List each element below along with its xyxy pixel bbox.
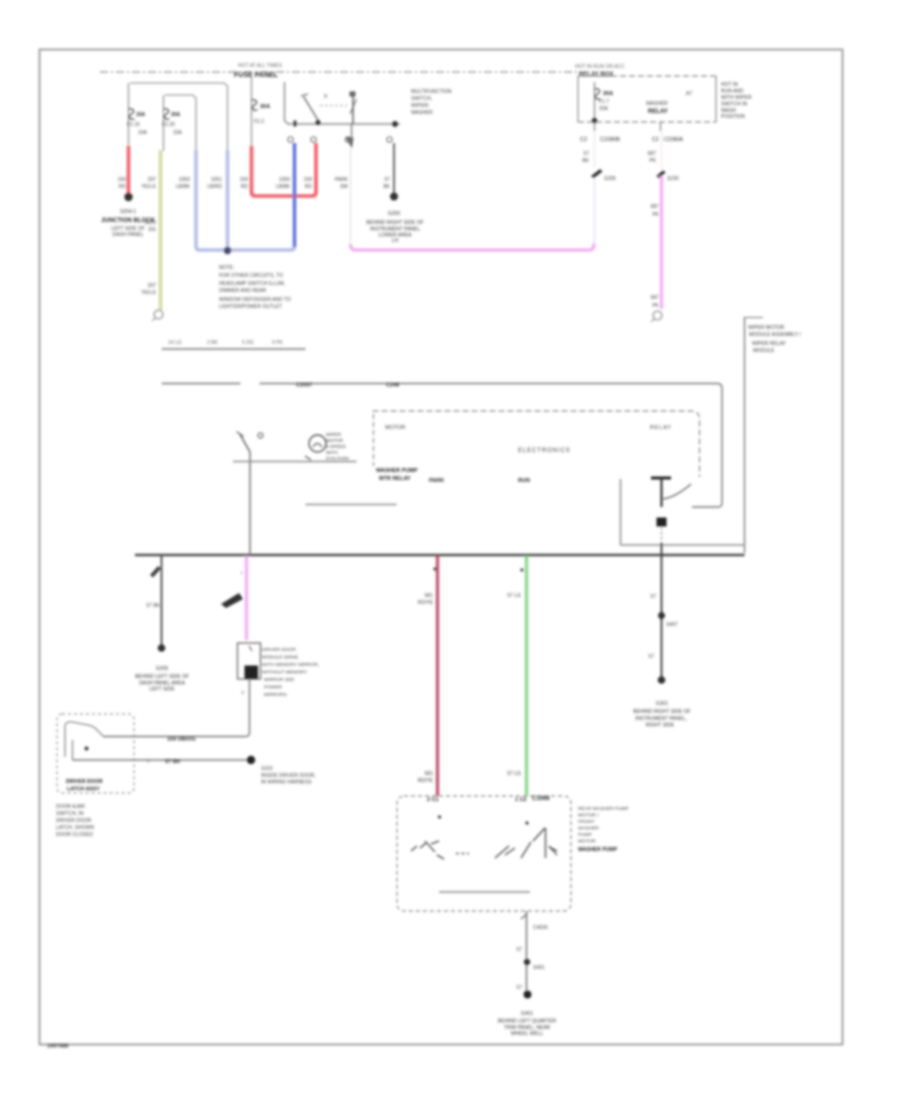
- svg-text:RELAY: RELAY: [650, 425, 672, 431]
- svg-text:RELAY BOX: RELAY BOX: [579, 72, 613, 78]
- svg-text:WASHER: WASHER: [411, 110, 433, 116]
- svg-text:A7: A7: [686, 91, 692, 97]
- svg-text:LH: LH: [392, 238, 399, 244]
- svg-text:MIRROR SEE: MIRROR SEE: [264, 677, 294, 683]
- svg-text:WIPER MOTOR: WIPER MOTOR: [748, 325, 785, 331]
- svg-text:LB/RD: LB/RD: [207, 184, 222, 190]
- svg-text:S204-1: S204-1: [120, 209, 136, 215]
- svg-text:HOT IN RUN OR ACC: HOT IN RUN OR ACC: [575, 64, 625, 70]
- svg-text:PK: PK: [652, 212, 659, 218]
- svg-text:DRIVER DOOR: DRIVER DOOR: [66, 779, 103, 785]
- svg-text:RIGHT SIDE: RIGHT SIDE: [646, 723, 675, 729]
- svg-text:F2.15: F2.15: [127, 122, 140, 128]
- svg-text:C248: C248: [386, 383, 399, 389]
- svg-text:G200: G200: [388, 211, 400, 217]
- svg-text:RELAY: RELAY: [648, 109, 668, 115]
- svg-text:MULTIFUNCTION: MULTIFUNCTION: [411, 89, 452, 95]
- svg-text:INSTRUMENT PANEL,: INSTRUMENT PANEL,: [635, 716, 687, 722]
- svg-text:57: 57: [516, 985, 522, 991]
- svg-text:PUMP: PUMP: [578, 832, 592, 838]
- svg-text:PARK: PARK: [429, 478, 444, 484]
- svg-text:BK: BK: [582, 158, 589, 164]
- svg-text:MOTOR /: MOTOR /: [578, 813, 599, 819]
- svg-text:REAR WASHER PUMP: REAR WASHER PUMP: [578, 806, 629, 812]
- svg-text:2 C1: 2 C1: [427, 797, 439, 803]
- svg-text:RUN AND: RUN AND: [721, 89, 744, 95]
- svg-text:C2280A: C2280A: [663, 137, 683, 143]
- svg-text:2 BK: 2 BK: [207, 340, 219, 346]
- svg-text:57 LG: 57 LG: [507, 771, 521, 777]
- svg-text:SWITCH, IN: SWITCH, IN: [56, 811, 84, 817]
- svg-text:WASHER: WASHER: [578, 826, 599, 832]
- svg-text:2-SPEED: 2-SPEED: [326, 444, 346, 449]
- svg-text:159: 159: [304, 177, 313, 183]
- svg-text:57: 57: [650, 594, 656, 600]
- svg-text:681: 681: [425, 771, 434, 777]
- svg-text:14 LG: 14 LG: [168, 340, 182, 346]
- svg-text:S230: S230: [667, 176, 679, 182]
- svg-text:HOT AT ALL TIMES: HOT AT ALL TIMES: [238, 63, 283, 69]
- svg-text:SWITCH IN: SWITCH IN: [721, 102, 747, 108]
- svg-text:G401: G401: [521, 1011, 533, 1017]
- svg-text:30A: 30A: [260, 104, 270, 110]
- svg-text:DOOR AJAR: DOOR AJAR: [56, 804, 85, 810]
- svg-text:FRONT: FRONT: [578, 819, 595, 825]
- svg-text:MOTOR: MOTOR: [326, 438, 344, 443]
- svg-text:WHEEL WELL: WHEEL WELL: [511, 1031, 544, 1037]
- svg-text:DIMMER AND REAR: DIMMER AND REAR: [219, 288, 267, 294]
- svg-text:57: 57: [516, 947, 522, 953]
- svg-text:YE/LG: YE/LG: [141, 184, 156, 190]
- svg-text:F2.2: F2.2: [254, 119, 264, 125]
- svg-text:687: 687: [651, 204, 660, 210]
- svg-text:BK: BK: [383, 184, 390, 190]
- svg-text:297: 297: [148, 283, 157, 289]
- svg-text:1050: 1050: [279, 177, 290, 183]
- svg-text:B: B: [324, 94, 328, 100]
- svg-text:WIPER/: WIPER/: [411, 103, 429, 109]
- svg-text:20A: 20A: [171, 112, 181, 118]
- svg-text:MODULE: MODULE: [753, 348, 775, 354]
- svg-text:S310: S310: [261, 766, 273, 772]
- svg-text:FOR OTHER CIRCUITS, TO: FOR OTHER CIRCUITS, TO: [219, 273, 283, 279]
- svg-text:159: 159: [240, 177, 249, 183]
- svg-text:WITH MEMORY MIRROR,: WITH MEMORY MIRROR,: [262, 662, 319, 668]
- svg-text:WITHOUT MEMORY: WITHOUT MEMORY: [262, 670, 308, 676]
- svg-text:BEHIND LEFT QUARTER: BEHIND LEFT QUARTER: [498, 1019, 557, 1025]
- svg-text:57: 57: [384, 177, 390, 183]
- svg-text:INSIDE DRIVER DOOR,: INSIDE DRIVER DOOR,: [261, 773, 316, 779]
- svg-text:SW: SW: [340, 184, 348, 190]
- svg-text:RD: RD: [119, 184, 127, 190]
- svg-text:9 PK: 9 PK: [272, 340, 284, 346]
- svg-text:LB/BK: LB/BK: [176, 184, 191, 190]
- svg-text:LATCH, SHOWN: LATCH, SHOWN: [56, 825, 94, 831]
- svg-text:RD: RD: [305, 184, 313, 190]
- svg-text:BEHIND RIGHT SIDE OF: BEHIND RIGHT SIDE OF: [366, 220, 423, 226]
- svg-text:687: 687: [651, 295, 660, 301]
- svg-text:F1.7: F1.7: [599, 99, 609, 105]
- svg-text:LIGHTER/POWER OUTLET: LIGHTER/POWER OUTLET: [219, 304, 282, 310]
- svg-text:POSITION: POSITION: [721, 114, 745, 120]
- svg-text:57: 57: [583, 151, 589, 157]
- svg-text:C1066: C1066: [532, 796, 550, 802]
- svg-text:RD/YE: RD/YE: [418, 600, 434, 606]
- svg-text:LEFT SIDE: LEFT SIDE: [149, 687, 175, 693]
- svg-text:NOTE:: NOTE:: [219, 265, 234, 271]
- svg-text:57 BK: 57 BK: [146, 603, 160, 609]
- svg-text:PK: PK: [649, 158, 656, 164]
- svg-text:MIRRORS: MIRRORS: [264, 692, 287, 698]
- svg-text:1997688: 1997688: [47, 1044, 68, 1050]
- svg-text:WASHER: WASHER: [646, 101, 668, 107]
- svg-text:681: 681: [425, 593, 434, 599]
- svg-text:MOTOR: MOTOR: [578, 839, 596, 845]
- svg-text:8: 8: [241, 690, 244, 695]
- svg-text:DASH PANEL: DASH PANEL: [112, 232, 144, 238]
- svg-text:YE/LG: YE/LG: [141, 290, 156, 296]
- svg-text:PK: PK: [652, 303, 659, 309]
- svg-text:F2.20: F2.20: [162, 122, 175, 128]
- svg-text:FUSE PANEL: FUSE PANEL: [234, 72, 279, 79]
- svg-text:RD/YE: RD/YE: [418, 778, 434, 784]
- svg-text:S206: S206: [604, 176, 616, 182]
- svg-text:159 DB/OG: 159 DB/OG: [167, 737, 196, 743]
- svg-text:ELECTRONICS: ELECTRONICS: [518, 448, 571, 454]
- svg-text:POWER: POWER: [264, 685, 283, 691]
- svg-text:WITH: WITH: [326, 450, 338, 455]
- svg-text:DRIVER DOOR: DRIVER DOOR: [56, 818, 92, 824]
- svg-text:57: 57: [648, 654, 654, 660]
- svg-text:WASHER PUMP: WASHER PUMP: [376, 468, 418, 474]
- svg-text:MOTOR: MOTOR: [385, 425, 405, 431]
- svg-text:IN WIRING HARNESS: IN WIRING HARNESS: [261, 780, 312, 786]
- svg-text:1051: 1051: [211, 177, 222, 183]
- svg-text:LATCH ASSY: LATCH ASSY: [67, 787, 100, 793]
- svg-text:DG: DG: [149, 227, 157, 233]
- svg-text:MODULE (DDM): MODULE (DDM): [262, 655, 298, 661]
- svg-text:5 DG: 5 DG: [242, 340, 254, 346]
- svg-text:DYN PARK: DYN PARK: [326, 456, 350, 461]
- svg-text:1: 1: [240, 570, 243, 575]
- svg-text:BEHIND RIGHT SIDE OF: BEHIND RIGHT SIDE OF: [633, 709, 690, 715]
- svg-text:C2: C2: [580, 137, 587, 143]
- svg-text:C2057: C2057: [296, 383, 312, 389]
- svg-text:30A: 30A: [603, 91, 613, 97]
- svg-text:15A: 15A: [136, 112, 146, 118]
- svg-text:G301: G301: [656, 701, 668, 707]
- svg-text:C2: C2: [652, 137, 659, 143]
- svg-text:297: 297: [148, 177, 157, 183]
- svg-text:57 BK: 57 BK: [165, 759, 181, 765]
- svg-text:RUN: RUN: [518, 478, 530, 484]
- svg-text:WIPER RELAY: WIPER RELAY: [752, 341, 786, 347]
- svg-text:1050: 1050: [179, 177, 190, 183]
- svg-text:G205: G205: [156, 666, 168, 672]
- svg-text:2: 2: [147, 759, 150, 764]
- svg-text:S220: S220: [144, 220, 156, 226]
- svg-text:DRIVER DOOR: DRIVER DOOR: [262, 647, 296, 653]
- svg-text:WIPER: WIPER: [326, 432, 342, 437]
- svg-text:S401: S401: [533, 965, 545, 971]
- svg-text:DOOR CLOSED: DOOR CLOSED: [56, 832, 93, 838]
- svg-text:S407: S407: [666, 622, 678, 628]
- svg-text:MTR RELAY: MTR RELAY: [379, 476, 411, 482]
- svg-text:PARK: PARK: [335, 177, 349, 183]
- svg-text:687: 687: [648, 151, 657, 157]
- svg-text:C2280B: C2280B: [600, 137, 620, 143]
- svg-text:1 C2: 1 C2: [515, 797, 527, 803]
- svg-text:MODULE ASSEMBLY /: MODULE ASSEMBLY /: [749, 332, 801, 338]
- svg-text:WITH WIPER: WITH WIPER: [721, 95, 752, 101]
- svg-text:159: 159: [118, 177, 127, 183]
- svg-text:15A: 15A: [173, 130, 183, 136]
- svg-text:10A: 10A: [138, 130, 148, 136]
- svg-text:WASHER PUMP: WASHER PUMP: [578, 847, 618, 853]
- svg-text:C4035: C4035: [533, 925, 548, 931]
- svg-text:WINDOW DEFOGGER AND TO: WINDOW DEFOGGER AND TO: [219, 297, 291, 303]
- svg-text:BEHIND LEFT SIDE OF: BEHIND LEFT SIDE OF: [135, 674, 189, 680]
- svg-text:HOT IN: HOT IN: [721, 82, 738, 88]
- svg-text:RD: RD: [241, 184, 249, 190]
- svg-text:20A: 20A: [599, 106, 609, 112]
- svg-text:SWITCH,: SWITCH,: [411, 96, 432, 102]
- svg-text:LB/BK: LB/BK: [276, 184, 291, 190]
- svg-text:57 LG: 57 LG: [507, 593, 521, 599]
- svg-text:HEADLAMP SWITCH ILLUM,: HEADLAMP SWITCH ILLUM,: [219, 281, 285, 287]
